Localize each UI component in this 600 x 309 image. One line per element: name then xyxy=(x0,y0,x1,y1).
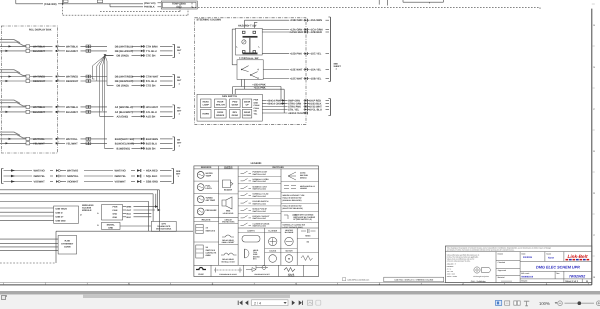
net labels group 2 xyxy=(146,76,159,88)
wire gen switch output 2 xyxy=(262,103,329,105)
tool icon snapshot xyxy=(308,300,313,305)
wire top-left CAB WD feed xyxy=(16,0,143,7)
inline connector group 2 xyxy=(86,75,91,82)
switch HAZARD/T-SW xyxy=(236,25,263,55)
cable labels group 4 xyxy=(115,138,134,151)
connector pair at box edge group 4 xyxy=(56,136,60,144)
cable labels group 2 xyxy=(115,76,134,88)
note SEE SHEET 1 top xyxy=(334,63,342,71)
wire labels group 4 inside box xyxy=(33,138,45,146)
terminal pins group 3 xyxy=(26,105,30,113)
connector at column edge gen 3 xyxy=(304,105,307,108)
connector at column edge wire 6 xyxy=(304,77,307,80)
sender TEMP SEND (DS) xyxy=(161,1,197,9)
third angle projection symbol xyxy=(473,267,491,278)
view mode single page (active) xyxy=(496,300,502,305)
zone ticks right xyxy=(592,4,595,256)
view mode two-up xyxy=(514,301,520,305)
wire group 3 shield row xyxy=(100,115,173,117)
note SEE SHT group 5 xyxy=(176,170,181,178)
dashed enclosure sensor bottom xyxy=(100,2,180,12)
wire steering output 1 (+15B GRN) xyxy=(245,20,330,28)
box SIGNAL GND xyxy=(97,222,120,229)
wire labels group 5 row 1 xyxy=(34,170,158,173)
junction connectors group 2 xyxy=(141,75,144,87)
wire group 4 shield row xyxy=(104,147,172,149)
box STEERING COLUMN xyxy=(195,18,306,125)
note SB SHT 1 group 2 xyxy=(177,76,182,85)
wire group 2 shield row xyxy=(107,85,173,87)
connector at column edge wire 4 xyxy=(304,52,307,55)
legend bottom row solar xyxy=(284,265,304,277)
legend bottom row fuse xyxy=(196,265,211,276)
junction arrow gen 2 xyxy=(282,102,285,105)
legend breaker small reset xyxy=(219,235,239,245)
wire group 5 row 1 xyxy=(4,169,172,172)
wire labels group 1 inside box xyxy=(33,45,45,53)
nav prev page button xyxy=(245,300,248,305)
zoom in button xyxy=(597,301,600,306)
zone numbers bottom xyxy=(45,282,548,285)
connector pair at box edge group 1 xyxy=(56,44,60,52)
connector USB xyxy=(54,206,83,223)
wire group 5 row 3 xyxy=(4,180,172,183)
wire labels group 2 inside box xyxy=(33,76,46,84)
title block outer xyxy=(445,246,591,283)
logo Link-Belt xyxy=(566,254,590,260)
spec text tolerances xyxy=(447,254,480,279)
junction connectors group 3 xyxy=(141,106,144,118)
wire gen switch output 5 xyxy=(262,112,304,114)
legend bottom row expansion blocks xyxy=(214,265,244,276)
wire group 3 row 1 xyxy=(0,106,173,108)
copyright note xyxy=(343,278,370,282)
tool icon select xyxy=(316,300,321,305)
wire gnd stub group1 xyxy=(105,55,114,57)
wire group 4 row 1 xyxy=(0,138,173,140)
inline connector group 3 xyxy=(86,106,91,114)
connector symbols group 5 row 3 xyxy=(56,180,141,183)
wire labels group 5 row 2 xyxy=(34,175,158,178)
wires RJ45 rows xyxy=(0,239,58,250)
wire labels group 3 right of box xyxy=(66,106,78,114)
legend right small col xyxy=(297,229,318,261)
junction connectors group 4 xyxy=(141,138,144,150)
zoom dropdown arrow xyxy=(555,302,558,304)
legend flasher cell xyxy=(265,229,281,262)
zoom out button xyxy=(558,301,563,306)
wire steering output 3 (DASH RED) xyxy=(262,31,329,33)
wire steering output 6 (+15C WHT) xyxy=(263,78,329,80)
box telematics enclosure third xyxy=(0,202,149,232)
signature cells xyxy=(498,252,512,281)
legend heater blower cell xyxy=(281,229,297,262)
notice text xyxy=(447,246,551,251)
harness loom group 4 xyxy=(0,132,26,138)
zone ticks bottom xyxy=(4,283,589,285)
connector at column edge gen 4 xyxy=(304,108,307,111)
legend relays header xyxy=(194,218,238,222)
title block grid xyxy=(445,252,591,283)
terminal pins group 4 xyxy=(26,137,30,145)
wire signal to antenna xyxy=(120,225,151,227)
inline connector group 1 xyxy=(86,45,91,52)
wire group 2 row 2 xyxy=(0,80,173,82)
wires USB rows xyxy=(0,208,54,220)
svg-text:2 / 4: 2 / 4 xyxy=(254,301,261,305)
connector pair at box edge group 2 xyxy=(56,74,60,82)
legend senders cells xyxy=(194,172,219,215)
legend bottom row diode ref xyxy=(246,265,279,276)
module wireless access xyxy=(102,205,123,220)
weight sheet cells xyxy=(521,279,588,283)
status left icon xyxy=(1,295,6,301)
cable labels group 1 xyxy=(115,45,133,57)
note SB SHT 1 group 3 xyxy=(177,106,182,115)
junction arrow gen 1 xyxy=(282,99,285,102)
legend lower columns xyxy=(194,228,319,265)
connector at column edge wire 5 xyxy=(304,68,307,71)
net labels group 1 xyxy=(146,45,158,57)
wire steering output 2 (+12A GRN) xyxy=(262,29,329,31)
wire group 1 row 2 xyxy=(0,50,173,52)
connector at column edge gen 5 xyxy=(304,112,307,115)
harness label box xyxy=(384,277,444,282)
cable labels group 3 xyxy=(115,106,133,119)
box telematics enclosure inner xyxy=(0,194,153,222)
wire labels group 2 right of box xyxy=(66,76,79,84)
connector at column edge gen 1 xyxy=(304,99,307,102)
svg-text:100%: 100% xyxy=(539,301,550,306)
net labels group 4 xyxy=(146,138,158,151)
connector at column edge wire 3 xyxy=(304,31,307,34)
wire labels group 4 right of box xyxy=(66,138,78,146)
connector L8 top xyxy=(97,0,102,3)
zoom slider track xyxy=(565,302,595,304)
nav next page button xyxy=(292,300,295,305)
off-sheet bracket group 1 xyxy=(173,44,175,57)
zone letters right xyxy=(593,24,595,279)
inline connector group 4 xyxy=(86,138,91,145)
wire riser 1 xyxy=(155,194,157,207)
connector at column edge wire 2 xyxy=(304,28,307,31)
view mode continuous xyxy=(505,301,510,305)
connector symbols group 5 row 2 xyxy=(56,175,141,178)
legend circuit protectors header xyxy=(219,218,239,223)
off-sheet bracket steering bottom xyxy=(328,99,330,116)
table legend outer xyxy=(194,166,319,277)
connector RJ45 ETHERNET xyxy=(58,236,77,255)
wire riser 2 xyxy=(157,190,159,210)
junction connectors group 1 xyxy=(141,45,144,57)
connector symbols group 5 row 1 xyxy=(56,169,141,172)
switch panel GEN SWITCH xyxy=(197,94,262,121)
wire gen switch output 3 xyxy=(262,106,329,108)
wire group 5 row 2 xyxy=(4,175,172,178)
dashed enclosure cab top xyxy=(63,4,188,15)
net labels group 3 xyxy=(146,106,159,119)
labels module wire colors xyxy=(127,206,132,219)
note SB SHT 1 group 1 xyxy=(177,46,182,55)
wire stubs top edge xyxy=(379,0,387,6)
wire labels group 5 row 3 xyxy=(34,181,159,184)
date cell xyxy=(522,252,533,259)
legend breaker thermal reset xyxy=(221,253,237,263)
wire group 3 row 2 xyxy=(0,111,173,113)
label PNK wires xyxy=(144,2,161,8)
component box top edge right xyxy=(403,0,443,3)
connector pair at box edge group 3 xyxy=(56,104,60,113)
legend lights cell xyxy=(238,229,265,260)
power loop wires above gen switch xyxy=(233,79,285,113)
nav first page button xyxy=(238,300,242,305)
wire group 4 row 2 xyxy=(0,142,173,144)
connector L2 top xyxy=(63,0,68,2)
legend switches right sub-column xyxy=(281,172,319,230)
nav last page button xyxy=(299,300,303,305)
shield bus verticals xyxy=(92,61,107,148)
wires module outputs xyxy=(123,207,155,217)
off-sheet bracket group 4 xyxy=(173,137,175,150)
off-sheet bracket group 5 xyxy=(172,169,174,184)
junction arrows to risers xyxy=(155,205,161,211)
box telematics enclosure outer xyxy=(0,190,193,263)
bracket source group 5 xyxy=(2,169,4,184)
legend switches left sub-column xyxy=(238,169,281,228)
off-sheet bracket group 3 xyxy=(173,105,175,118)
terminal pins group 1 xyxy=(26,45,30,53)
wire group 1 row 1 xyxy=(0,45,173,47)
zoom slider handle xyxy=(578,301,582,305)
connector at column edge wire 1 xyxy=(304,19,307,22)
sheet border bottom inner xyxy=(0,282,592,284)
legend header cells xyxy=(194,165,319,265)
status bar xyxy=(0,294,600,309)
wire gen switch output 1 xyxy=(262,100,329,102)
dashed enclosure steering top xyxy=(192,2,540,10)
wire group 2 row 1 xyxy=(0,75,173,77)
gen switch pin labels xyxy=(254,99,260,116)
shield bus fan junction xyxy=(92,54,107,66)
legend relay cells xyxy=(194,225,219,259)
wo cell xyxy=(521,272,559,278)
wire group 1 shield row xyxy=(105,55,173,57)
connector at column edge gen 2 xyxy=(304,102,307,105)
wire steering output 4 (+15D PNK) xyxy=(262,53,329,55)
switch Tilt/Telescope SW xyxy=(237,57,263,80)
harness loom group 1 xyxy=(0,40,26,46)
box RCL DISPLAY BOX xyxy=(1,26,57,153)
wire steering output 5 (+15E WHT) xyxy=(263,69,329,71)
label WIRELESS ACCESS MODULE xyxy=(82,204,99,215)
view mode scrolling xyxy=(524,301,529,306)
antenna GPS TELEMATICS WIFI xyxy=(151,221,176,231)
harness loom group 2 xyxy=(0,70,26,76)
scrollbar horizontal xyxy=(0,291,600,294)
wire gen switch output 4 xyxy=(262,109,329,111)
legend speaker cell xyxy=(222,197,234,215)
wire labels group 3 inside box xyxy=(33,106,45,114)
wire labels group 1 right of box xyxy=(66,45,78,53)
legend buzzer cell xyxy=(219,180,239,194)
scrollbar thumb xyxy=(83,294,290,298)
sheet border right xyxy=(591,9,593,285)
sheet border bottom outer xyxy=(0,284,592,286)
nav page field xyxy=(252,300,289,306)
wire hazard left leg xyxy=(232,29,237,65)
terminal pins group 2 xyxy=(26,75,30,83)
harness loom group 3 xyxy=(0,100,26,106)
off-sheet bracket steering top xyxy=(328,17,330,82)
off-sheet bracket group 2 xyxy=(173,75,175,88)
scale cell xyxy=(546,252,554,259)
note SB SHT 1 group 4 xyxy=(177,138,182,147)
